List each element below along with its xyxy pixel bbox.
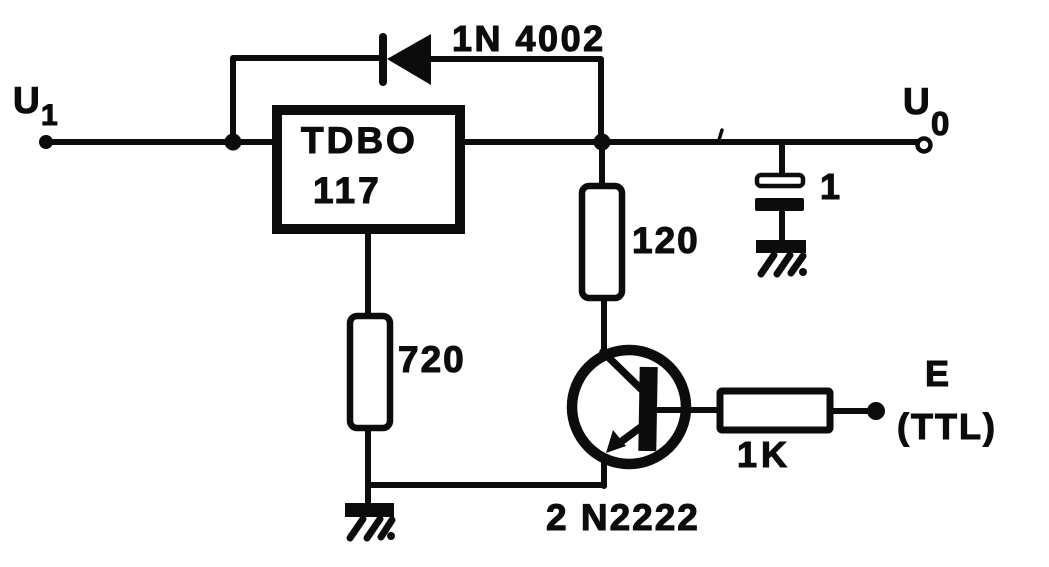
wire: output node down to resistor 120 [599, 142, 605, 186]
svg-text:117: 117 [313, 170, 382, 211]
ground symbol (C1) hatching [761, 255, 774, 274]
node B: output junction [594, 134, 611, 151]
node A: input junction [225, 134, 242, 151]
wire: input node up and right to diode cathode [233, 58, 380, 142]
svg-text:1: 1 [820, 166, 840, 207]
ground symbol (C1) bar [756, 240, 806, 253]
svg-text:U: U [903, 81, 930, 122]
svg-text:(TTL): (TTL) [897, 406, 997, 447]
capacitor C1 top plate (outlined) [757, 175, 803, 186]
capacitor C1 bottom plate (solid) [755, 198, 804, 211]
svg-text:120: 120 [632, 220, 700, 261]
wire: diode anode right and down to output node [429, 59, 601, 142]
wire: output rail down to capacitor C1 [779, 142, 785, 176]
output terminal U0 (open circle) [918, 139, 931, 152]
tick mark on output wire [719, 130, 722, 140]
ground symbol (R720) hatching [350, 519, 363, 538]
wire: resistor 1K to terminal E [830, 408, 869, 414]
wire: base to resistor 1K [657, 407, 720, 413]
wire: regulator output to U0 terminal [465, 139, 918, 145]
transistor Q1 emitter arrowhead [606, 430, 626, 453]
wire: resistor 120 to transistor collector [601, 298, 607, 352]
wire: regulator ADJ down to resistor 720 [365, 229, 371, 316]
resistor R1 720 [350, 316, 390, 428]
wire: ground rail to transistor emitter [368, 482, 604, 488]
svg-text:E: E [925, 353, 949, 394]
transistor Q1 collector stroke [603, 352, 642, 390]
input terminal U1 [39, 135, 53, 149]
transistor Q1 body circle [572, 350, 686, 464]
resistor R2 120 [582, 186, 622, 298]
svg-text:2 N2222: 2 N2222 [546, 497, 700, 538]
ground symbol (R720) bar [345, 503, 394, 517]
svg-text:720: 720 [398, 339, 466, 380]
resistor R3 1K [720, 391, 830, 430]
transistor Q1 emitter stroke [622, 424, 645, 441]
svg-text:1: 1 [41, 99, 58, 132]
wire: capacitor C1 to ground [779, 211, 785, 243]
svg-text:0: 0 [931, 105, 949, 142]
svg-text:1N 4002: 1N 4002 [452, 18, 606, 59]
svg-text:U: U [13, 80, 40, 121]
svg-text:1K: 1K [737, 434, 791, 475]
diode D1 body (triangle pointing left) [387, 34, 431, 85]
terminal E (solid dot) [867, 402, 885, 420]
diode D1 cathode bar [379, 37, 387, 82]
regulator U2 TDBO117 box [277, 110, 460, 229]
wire: resistor 720 to ground [365, 428, 371, 506]
svg-text:TDBO: TDBO [301, 120, 418, 161]
wire: emitter down to ground rail [601, 458, 607, 486]
transistor Q1 base bar [638, 367, 657, 451]
wire: U1 terminal to regulator input [46, 139, 277, 145]
